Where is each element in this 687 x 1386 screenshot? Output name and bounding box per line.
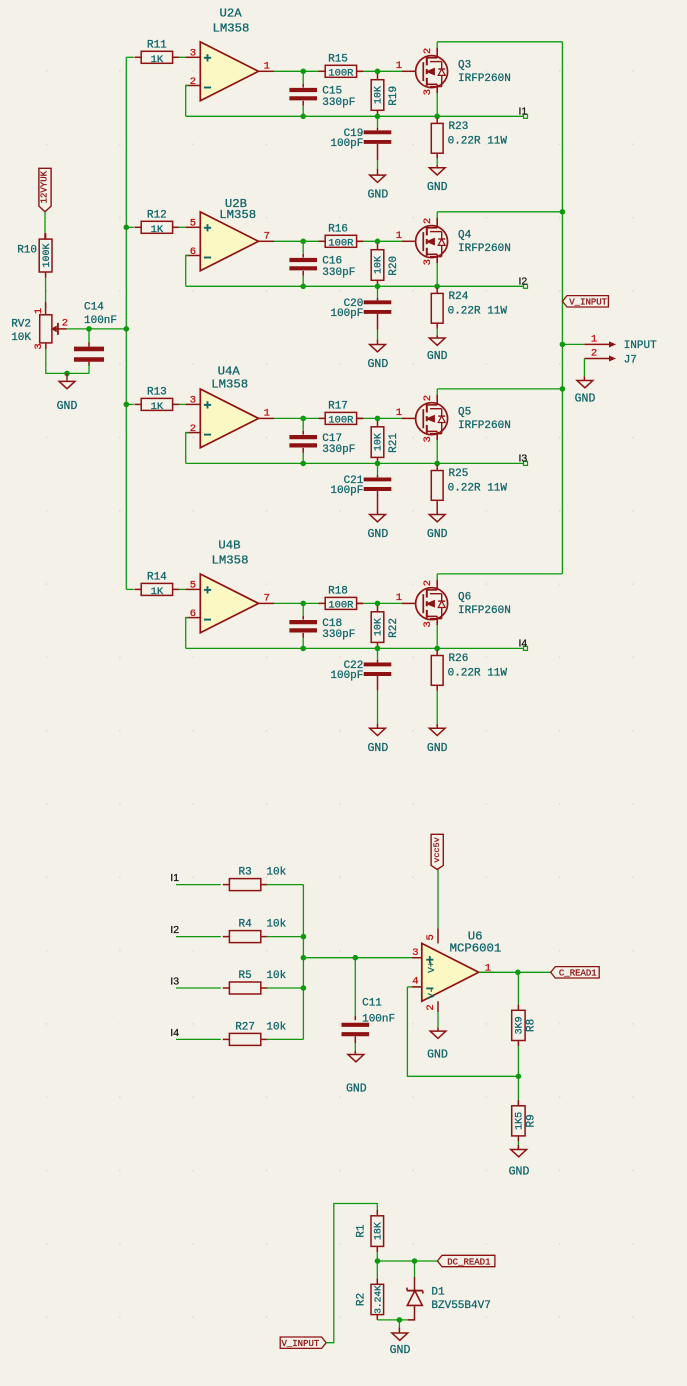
svg-text:U2A: U2A [220,7,243,21]
svg-text:GND: GND [427,181,448,194]
svg-text:1: 1 [33,308,45,314]
svg-text:100pF: 100pF [330,138,363,150]
svg-text:GND: GND [427,742,448,755]
svg-text:C14: C14 [84,302,104,314]
svg-text:1K: 1K [151,54,164,66]
svg-text:GND: GND [57,400,78,413]
svg-text:R12: R12 [147,210,167,222]
svg-text:R4: R4 [238,919,252,931]
svg-text:MCP6001: MCP6001 [450,941,502,955]
svg-text:R10: R10 [17,244,37,256]
svg-text:I2: I2 [519,275,528,287]
svg-text:2: 2 [422,218,434,224]
svg-text:18K: 18K [374,1222,385,1240]
svg-text:10k: 10k [266,1021,286,1033]
svg-text:2: 2 [422,580,434,586]
svg-text:6: 6 [190,246,196,258]
svg-text:3: 3 [422,89,434,95]
svg-text:GND: GND [368,742,389,755]
svg-text:12VYUK: 12VYUK [40,170,50,203]
svg-text:V_INPUT: V_INPUT [281,1339,319,1349]
svg-text:3K9: 3K9 [515,1016,526,1034]
svg-text:330pF: 330pF [322,629,355,641]
svg-text:2: 2 [425,1004,437,1010]
svg-text:2: 2 [422,395,434,401]
svg-text:IRFP260N: IRFP260N [458,243,511,255]
svg-text:10k: 10k [266,919,286,931]
svg-text:3: 3 [422,621,434,627]
svg-text:1: 1 [396,60,402,72]
svg-text:3: 3 [190,48,196,60]
svg-text:RV2: RV2 [11,319,31,331]
svg-text:R1: R1 [356,1224,368,1238]
svg-text:100nF: 100nF [362,1014,395,1026]
svg-text:V+: V+ [426,961,437,973]
svg-text:R19: R19 [388,86,400,106]
svg-text:GND: GND [427,1049,448,1062]
svg-text:10K: 10K [374,86,385,104]
svg-text:LM358: LM358 [211,378,248,392]
svg-text:2: 2 [422,48,434,54]
svg-text:R17: R17 [328,401,348,413]
svg-text:GND: GND [346,1083,367,1096]
svg-text:C11: C11 [362,997,382,1009]
svg-text:100K: 100K [42,243,53,267]
svg-text:GND: GND [509,1165,530,1178]
svg-text:R25: R25 [449,468,469,480]
svg-text:U4B: U4B [218,539,240,553]
svg-text:100pF: 100pF [330,308,363,320]
svg-text:10k: 10k [266,867,286,879]
svg-text:IRFP260N: IRFP260N [458,605,511,617]
svg-text:R3: R3 [238,867,251,879]
svg-text:GND: GND [368,189,389,202]
svg-text:5: 5 [425,934,437,940]
svg-text:IRFP260N: IRFP260N [458,73,511,85]
svg-text:R5: R5 [238,970,251,982]
svg-text:330pF: 330pF [322,97,355,109]
svg-text:100R: 100R [328,415,354,427]
svg-text:R15: R15 [328,53,348,65]
svg-text:330pF: 330pF [322,267,355,279]
svg-text:C18: C18 [322,618,342,630]
svg-text:3: 3 [422,436,434,442]
svg-text:I1: I1 [519,105,528,117]
svg-text:D1: D1 [431,1286,445,1298]
svg-text:3: 3 [190,395,196,407]
svg-text:3.24K: 3.24K [373,1285,384,1314]
svg-text:V-: V- [426,987,437,998]
svg-text:2: 2 [190,76,196,88]
svg-text:DC_READ1: DC_READ1 [447,1257,490,1267]
svg-text:Q3: Q3 [458,60,471,72]
svg-text:4: 4 [412,975,418,987]
svg-text:1K5: 1K5 [515,1112,526,1130]
svg-text:1K: 1K [151,586,164,598]
svg-text:Q5: Q5 [458,407,471,419]
svg-text:GND: GND [368,528,389,541]
svg-text:GND: GND [575,393,596,406]
svg-text:R11: R11 [147,40,167,52]
svg-text:R24: R24 [449,291,469,303]
svg-text:10k: 10k [266,970,286,982]
svg-text:vcc5v: vcc5v [432,837,442,863]
svg-text:R22: R22 [388,618,400,638]
svg-text:INPUT: INPUT [624,340,657,352]
svg-text:10K: 10K [11,332,31,344]
svg-text:1: 1 [485,962,491,974]
svg-text:3: 3 [33,343,45,349]
svg-text:J7: J7 [624,355,637,367]
svg-text:R16: R16 [328,223,348,235]
svg-text:R20: R20 [388,256,400,276]
svg-text:3: 3 [422,259,434,265]
svg-text:C16: C16 [322,256,342,268]
svg-text:1K: 1K [151,224,164,236]
svg-text:100pF: 100pF [330,670,363,682]
svg-text:I4: I4 [519,637,528,649]
svg-text:1: 1 [591,334,597,346]
svg-text:I1: I1 [170,872,179,884]
svg-text:2: 2 [62,317,68,329]
svg-text:10K: 10K [374,618,385,636]
svg-text:Q6: Q6 [458,592,471,604]
svg-text:R8: R8 [526,1019,538,1032]
svg-text:U4A: U4A [218,365,241,379]
svg-text:LM358: LM358 [219,208,256,222]
svg-text:R26: R26 [449,653,469,665]
svg-text:1: 1 [396,592,402,604]
svg-text:0.22R 11W: 0.22R 11W [448,482,508,494]
svg-text:330pF: 330pF [322,444,355,456]
svg-text:R27: R27 [235,1021,255,1033]
svg-text:Q4: Q4 [458,230,472,242]
svg-text:0.22R 11W: 0.22R 11W [448,135,508,147]
svg-text:C_READ1: C_READ1 [559,969,597,979]
svg-text:1: 1 [396,230,402,242]
svg-text:I3: I3 [170,975,179,987]
svg-text:2: 2 [190,423,196,435]
svg-text:R13: R13 [147,387,167,399]
svg-text:1: 1 [396,407,402,419]
svg-text:C17: C17 [322,433,342,445]
svg-text:I3: I3 [519,452,528,464]
svg-text:100nF: 100nF [84,315,117,327]
svg-text:3: 3 [412,947,418,959]
svg-text:R9: R9 [526,1114,538,1127]
svg-text:V_INPUT: V_INPUT [569,298,607,308]
svg-text:R14: R14 [147,572,167,584]
svg-text:R18: R18 [328,586,348,598]
svg-text:5: 5 [190,218,196,230]
svg-text:GND: GND [390,1344,411,1357]
svg-text:100R: 100R [328,238,354,250]
svg-text:100pF: 100pF [330,485,363,497]
svg-text:R21: R21 [388,433,400,453]
svg-text:100R: 100R [328,68,354,80]
svg-text:GND: GND [427,528,448,541]
svg-text:GND: GND [427,350,448,363]
svg-text:I4: I4 [170,1027,179,1039]
svg-text:5: 5 [190,580,196,592]
svg-text:C15: C15 [322,86,342,98]
svg-text:10K: 10K [374,256,385,274]
svg-text:R23: R23 [449,121,469,133]
svg-text:2: 2 [591,348,597,360]
svg-text:0.22R 11W: 0.22R 11W [448,305,508,317]
svg-text:GND: GND [368,358,389,371]
svg-text:6: 6 [190,608,196,620]
svg-text:I2: I2 [170,924,179,936]
svg-text:10K: 10K [374,433,385,451]
svg-text:R2: R2 [356,1293,368,1306]
svg-text:1K: 1K [151,401,164,413]
svg-text:0.22R 11W: 0.22R 11W [448,667,508,679]
svg-text:LM358: LM358 [212,553,249,567]
svg-text:LM358: LM358 [212,21,249,35]
svg-text:BZV55B4V7: BZV55B4V7 [431,1300,490,1312]
svg-text:IRFP260N: IRFP260N [458,420,511,432]
svg-text:100R: 100R [328,600,354,612]
